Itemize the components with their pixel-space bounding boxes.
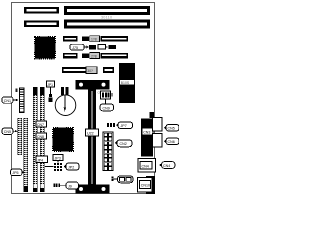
port cap <box>150 112 155 118</box>
callout CN6 right <box>164 138 179 145</box>
connector box CN4 <box>138 159 156 173</box>
jumper JP6 with callout <box>112 176 134 183</box>
fan connector striped box <box>101 91 114 104</box>
jumper grid 3x3 <box>54 163 63 172</box>
svg-text:U22: U22 <box>87 132 94 136</box>
label box CN7 on sockets <box>36 121 47 127</box>
svg-text:CN8: CN8 <box>37 135 44 139</box>
keyboard connector block <box>138 176 156 194</box>
svg-text:JP2: JP2 <box>68 165 74 169</box>
callout JP5 (left) <box>11 169 25 176</box>
jumper J9 with callout near bottom cap <box>54 182 79 189</box>
svg-text:JP1: JP1 <box>47 83 53 87</box>
port connector bottom <box>153 134 163 148</box>
jumper row R2: callout J75 <box>70 44 89 50</box>
BIOS chip <box>119 63 135 103</box>
stacked port block (right) <box>141 119 153 157</box>
ISA slot row2 right <box>64 20 150 29</box>
wire from jumper grid to left <box>45 166 54 168</box>
svg-text:30110: 30110 <box>101 16 112 20</box>
svg-text:CN7: CN7 <box>37 123 44 127</box>
CPU slot bottom cap <box>76 185 110 194</box>
CPU slot top cap <box>76 80 110 90</box>
svg-text:JP7: JP7 <box>121 124 127 128</box>
callout CN9 under fan connector <box>100 104 114 111</box>
small box R2b <box>98 45 116 50</box>
svg-text:J9: J9 <box>68 184 72 188</box>
svg-text:CN10: CN10 <box>141 184 150 188</box>
jumper JP7 <box>107 122 133 129</box>
svg-text:CN5: CN5 <box>4 130 11 134</box>
svg-text:CN4: CN4 <box>163 164 170 168</box>
horizontal slot H1 <box>62 67 114 74</box>
slot row R1 <box>63 36 128 42</box>
callout CN2 <box>115 140 132 147</box>
svg-text:CN2: CN2 <box>120 142 127 146</box>
pin header CN2 <box>103 132 113 171</box>
chip U1 (QFP) <box>35 37 55 59</box>
svg-text:2?8: 2?8 <box>91 54 97 58</box>
port connector top <box>153 118 163 132</box>
svg-text:CN1: CN1 <box>4 99 11 103</box>
tiny part left of ladder <box>16 89 18 92</box>
board outline <box>12 3 155 194</box>
CPU slot label box U22 <box>86 129 99 136</box>
callout JP2 right of grid <box>64 163 79 170</box>
SIMM socket B <box>24 118 29 192</box>
svg-text:CN4: CN4 <box>142 164 149 168</box>
svg-text:CN6: CN6 <box>168 140 175 144</box>
svg-text:JP5: JP5 <box>12 171 18 175</box>
callout CN5 right <box>164 124 179 131</box>
socket C foot label <box>34 185 37 188</box>
svg-text:JP3: JP3 <box>55 156 61 160</box>
jumper block target of J75 <box>89 45 96 50</box>
socket D foot label <box>41 185 44 188</box>
ISA slot row2 left <box>24 21 59 28</box>
DIMM socket D <box>40 87 45 192</box>
slot row R3 <box>63 53 128 59</box>
label box CN8 on sockets <box>36 133 47 139</box>
callout CN1 (left) <box>2 97 19 103</box>
callout CN4 right <box>159 162 175 169</box>
svg-text:CN3: CN3 <box>143 130 150 134</box>
CPU slot body <box>88 90 96 186</box>
chip U2 (QFP) <box>53 128 73 151</box>
DIMM socket C <box>33 87 38 192</box>
SIMM socket A <box>18 118 23 155</box>
svg-text:CN9: CN9 <box>103 106 110 110</box>
svg-text:JP4: JP4 <box>37 158 43 162</box>
callout CN5 (left) <box>2 128 18 134</box>
resistor ladder RN1 <box>20 88 25 113</box>
svg-text:30?: 30? <box>87 69 93 73</box>
svg-text:B10S: B10S <box>121 81 130 85</box>
callout JP1 with pin <box>47 81 55 102</box>
svg-text:CN5: CN5 <box>168 127 175 131</box>
label box JP4 on sockets <box>36 156 48 163</box>
ISA slot row1 right <box>64 6 150 15</box>
callout JP3 above jumper grid <box>53 155 63 163</box>
svg-text:1?8: 1?8 <box>91 38 97 42</box>
battery crystal <box>55 87 76 115</box>
ISA slot row1 left <box>24 7 59 14</box>
svg-text:J75: J75 <box>72 46 78 50</box>
